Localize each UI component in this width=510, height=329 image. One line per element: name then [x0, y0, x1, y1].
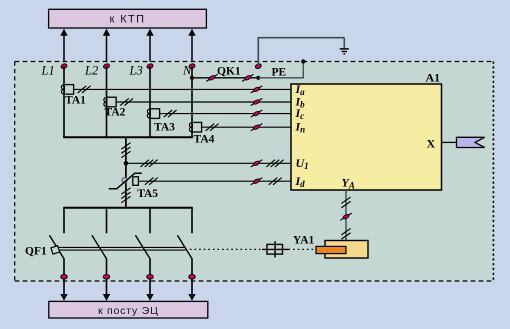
wire: L2 feeder to КТП (arrow up)	[106, 34, 108, 62]
switch QK1 contact 1	[206, 74, 218, 81]
solenoid YA1 plunger	[316, 246, 346, 253]
wire: TA1 secondary to A1	[74, 88, 291, 90]
junction node for U1 tap	[124, 161, 129, 166]
wire: L3 feeder to КТП (arrow up)	[149, 34, 151, 62]
terminal dot below QF1 pole 4	[189, 274, 196, 279]
wire: QF1 pole 1 lower conductor	[63, 259, 65, 295]
terminal dot L2	[103, 63, 110, 69]
mechanical coupling symbol	[267, 244, 283, 254]
svg-text:TA2: TA2	[105, 107, 126, 119]
cable-core marks on YA (upper)	[341, 201, 350, 207]
wire: QK1 link N to PE	[192, 77, 258, 79]
cable-core marks (lower)	[121, 196, 130, 202]
wire: QF1 pole 2 upper stub	[106, 208, 108, 234]
wire: 4-core cable drop from bus	[125, 137, 127, 172]
test link on Ia line	[251, 86, 263, 93]
svg-text:к КТП: к КТП	[110, 13, 146, 25]
wire: QF1 pole 3 lower conductor	[149, 259, 151, 295]
test link on Id line	[251, 178, 263, 185]
junction dot on enclosure screen	[301, 59, 305, 63]
terminal dot N	[188, 63, 195, 69]
current transformer TA1	[64, 85, 73, 95]
svg-text:A1: A1	[426, 71, 441, 85]
breaker QF1 pole 1 blade	[49, 235, 64, 259]
connector flag X	[457, 137, 485, 147]
zero-sequence CT TA5	[125, 173, 127, 188]
terminal block: к КТП	[49, 9, 207, 28]
svg-text:QK1: QK1	[217, 65, 241, 77]
wire: N feeder to КТП (arrow up)	[191, 34, 193, 62]
breaker QF1 pole 3 blade	[135, 235, 150, 259]
arrow into ЭЦ box pole 2	[103, 294, 110, 301]
solenoid YA1 body	[325, 241, 368, 259]
breaker QF1 pole 4 blade	[177, 235, 192, 259]
wire: L2 vertical conductor	[106, 66, 108, 137]
wire: TA3 secondary to A1	[160, 113, 291, 115]
cubicle enclosure (dashed screen boundary)	[15, 62, 494, 282]
test link on In line	[251, 124, 263, 131]
svg-text:X: X	[427, 137, 436, 151]
svg-text:TA4: TA4	[194, 134, 215, 146]
svg-text:TA5: TA5	[137, 188, 158, 200]
cable-core marks on U1 (right)	[266, 160, 275, 167]
wire: TA4 secondary to A1	[202, 126, 291, 128]
terminal dot below QF1 pole 2	[103, 274, 110, 279]
cable-core marks on TA4 secondary	[206, 124, 215, 131]
wire: N vertical conductor	[191, 66, 193, 137]
breaker QF1 linkage bar	[55, 246, 185, 248]
svg-text:к посту ЭЦ: к посту ЭЦ	[98, 305, 159, 317]
terminal block: к посту ЭЦ	[49, 301, 208, 318]
wire: L1 vertical conductor	[63, 66, 65, 137]
junction dot PE-QK1	[256, 76, 260, 80]
cable-core marks on U1 (left)	[140, 160, 149, 167]
wire: PE riser to earth	[257, 38, 259, 66]
arrow into ЭЦ box pole 4	[188, 294, 195, 301]
wire: distribution bus to QF1	[63, 207, 193, 209]
current transformer TA4	[192, 122, 201, 132]
ground (earth electrode)	[340, 48, 349, 50]
switch QK1 contact 2	[242, 74, 254, 81]
wire: QF1 pole 4 upper stub	[191, 208, 193, 234]
current transformer TA2	[107, 97, 116, 107]
junction dot on N at QK1	[190, 76, 194, 80]
terminal dot PE	[255, 63, 262, 69]
wire: QF1 pole 1 upper stub	[63, 208, 65, 234]
wire: L3 vertical conductor	[149, 66, 151, 137]
wire: QF1 pole 4 lower conductor	[191, 259, 193, 295]
terminal dot L3	[146, 63, 153, 69]
wire: L1 feeder to КТП (arrow up)	[63, 34, 65, 62]
svg-text:L1: L1	[41, 64, 55, 78]
wire: lower horizontal bus joining L1 L2 L3 N	[63, 136, 193, 138]
arrow into ЭЦ box pole 3	[146, 294, 153, 301]
wire: QF1 pole 3 upper stub	[149, 208, 151, 234]
svg-text:YA1: YA1	[293, 234, 315, 246]
svg-text:QF1: QF1	[25, 246, 47, 258]
test link on Ic line	[251, 110, 263, 117]
arrow into ЭЦ box pole 1	[60, 294, 67, 301]
breaker QF1 pole 2 blade	[92, 235, 107, 259]
wire: PE bond to enclosure screen	[258, 77, 303, 79]
wire: voltage tap U1 to A1	[126, 162, 291, 164]
wire: TA5 secondary Id to A1	[138, 180, 291, 182]
svg-text:L2: L2	[84, 64, 98, 78]
test link on YA line	[340, 213, 352, 220]
cable-core marks on Id (left)	[145, 178, 154, 185]
wire: YA output to YA1 coil	[345, 190, 347, 241]
cable-core marks on YA (lower)	[341, 233, 350, 239]
svg-text:L3: L3	[129, 64, 143, 78]
cable-core marks on TA1 secondary	[78, 86, 87, 93]
cable-core marks on TA3 secondary	[164, 110, 173, 117]
current transformer TA3	[150, 109, 159, 119]
cable-core marks (upper)	[121, 151, 130, 157]
terminal dot below QF1 pole 3	[147, 274, 154, 279]
cable-core marks on TA2 secondary	[120, 98, 129, 105]
wire: TA2 secondary to A1	[116, 101, 291, 103]
terminal dot below QF1 pole 1	[61, 274, 68, 279]
relay/terminal device A1	[291, 84, 442, 190]
svg-text:PE: PE	[272, 67, 287, 79]
test link on U1 line	[251, 160, 263, 167]
terminal dot L1	[60, 63, 67, 69]
wire: X output	[442, 141, 457, 143]
mechanical link (dotted) QF1 to YA1	[185, 248, 262, 250]
test link on Ib line	[251, 98, 263, 105]
svg-text:TA3: TA3	[154, 122, 175, 134]
cable-core marks on Id (right)	[269, 178, 278, 185]
svg-text:TA1: TA1	[65, 94, 86, 106]
wire: QF1 pole 2 lower conductor	[106, 259, 108, 295]
